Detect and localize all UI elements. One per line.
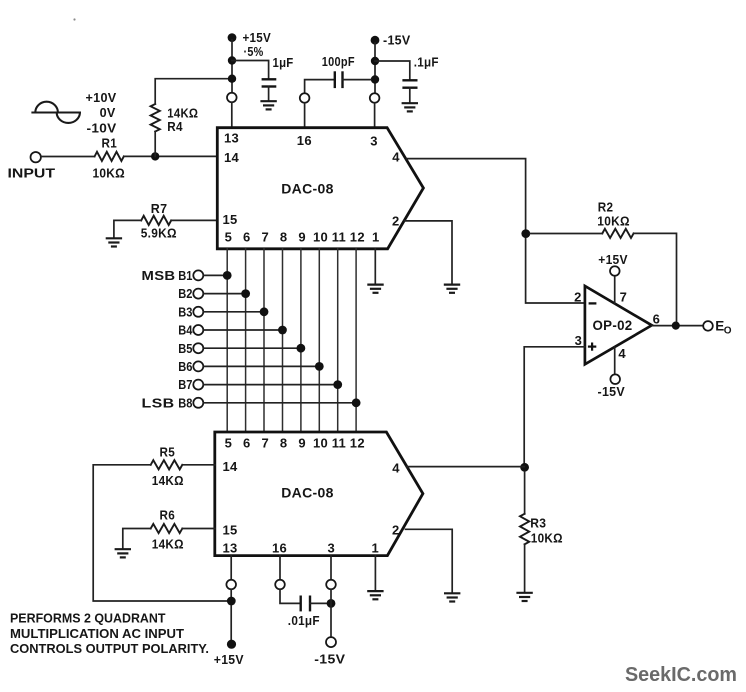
svg-text:10: 10: [313, 230, 328, 245]
wire: [203, 365, 319, 367]
wire bus pin 9: [300, 249, 302, 432]
wire: [406, 529, 453, 593]
svg-text:2: 2: [392, 213, 400, 228]
wire: [330, 589, 332, 637]
svg-text:14: 14: [223, 459, 239, 474]
terminal U3 pin16 bottom: [275, 580, 285, 590]
wire: [343, 79, 372, 81]
svg-text:B5: B5: [178, 341, 192, 356]
svg-text:R3: R3: [530, 516, 546, 531]
wire: [114, 220, 141, 238]
ground: [115, 549, 131, 557]
svg-text:LSB: LSB: [142, 395, 175, 410]
wire: [409, 88, 411, 103]
svg-text:1μF: 1μF: [273, 55, 294, 70]
junction B2 to pin 6: [241, 289, 250, 298]
ground: [444, 285, 460, 293]
junction: [228, 75, 236, 83]
wire bus pin 12: [355, 249, 357, 432]
svg-text:4: 4: [618, 346, 626, 361]
junction: [371, 57, 379, 65]
wire: [304, 103, 306, 128]
svg-text:R6: R6: [160, 508, 176, 523]
svg-text:4: 4: [392, 461, 400, 476]
wire: [203, 384, 337, 386]
junction: [371, 75, 379, 83]
svg-text:6: 6: [243, 435, 251, 450]
svg-text:13: 13: [223, 540, 238, 555]
op-amp U2 OP-02 body: [585, 286, 652, 364]
svg-text:MSB: MSB: [142, 268, 176, 283]
wire: [634, 233, 677, 325]
wire: [375, 61, 410, 79]
U2 inverting - sign: [589, 302, 597, 304]
wire bus pin 7: [263, 249, 265, 432]
terminal B1: [178, 268, 203, 283]
svg-text:O: O: [724, 325, 732, 336]
svg-text:R4: R4: [167, 119, 183, 134]
capacitor C2 100pF: [322, 54, 355, 88]
junction output node: [672, 322, 680, 330]
svg-text:5: 5: [225, 230, 233, 245]
svg-text:8: 8: [280, 435, 288, 450]
svg-text:.01μF: .01μF: [288, 613, 320, 628]
terminal B8: [178, 395, 203, 410]
svg-text:11: 11: [332, 230, 346, 245]
terminal U1 pin13 top: [227, 93, 237, 103]
svg-text:16: 16: [272, 540, 287, 555]
wire: [155, 79, 227, 104]
wire: [230, 556, 232, 580]
svg-text:R2: R2: [598, 199, 614, 214]
svg-text:.1μF: .1μF: [414, 55, 439, 70]
svg-text:B6: B6: [178, 359, 192, 374]
terminal U3 pin3 bottom: [326, 580, 336, 590]
DAC U1 DAC-08 body: [217, 128, 423, 249]
svg-text:7: 7: [620, 289, 628, 304]
svg-text:7: 7: [261, 230, 269, 245]
svg-text:8: 8: [280, 230, 288, 245]
svg-text:B7: B7: [178, 377, 192, 392]
ground: [444, 593, 460, 601]
svg-text:B3: B3: [178, 304, 192, 319]
svg-text:15: 15: [223, 212, 238, 227]
svg-text:10KΩ: 10KΩ: [531, 531, 563, 546]
svg-text:12: 12: [350, 230, 365, 245]
terminal B7: [178, 377, 203, 392]
terminal B5: [178, 341, 203, 356]
wire: [374, 103, 376, 128]
resistor R6 14K: [151, 508, 184, 552]
wire: [203, 274, 227, 276]
wire: [203, 293, 245, 295]
svg-text:3: 3: [575, 333, 583, 348]
wire: [374, 43, 376, 93]
wire: [374, 249, 376, 285]
terminal U1 pin16 top: [300, 93, 310, 103]
wire bus pin 10: [318, 249, 320, 432]
terminal U1 pin3 top: [370, 93, 380, 103]
terminal B2: [178, 286, 203, 301]
svg-text:5.9KΩ: 5.9KΩ: [141, 226, 177, 241]
svg-text:10: 10: [313, 435, 328, 450]
wire: [280, 589, 300, 603]
power +15V terminal: [228, 33, 237, 42]
wire: [203, 329, 282, 331]
svg-text:1: 1: [372, 540, 380, 555]
capacitor C1 1uF: [262, 55, 294, 86]
junction B5 to pin 9: [296, 344, 305, 353]
wire: [124, 155, 218, 157]
svg-text:10KΩ: 10KΩ: [93, 165, 126, 180]
svg-text:+15V: +15V: [214, 652, 244, 667]
svg-text:-10V: -10V: [87, 120, 117, 135]
wire: [407, 159, 585, 303]
svg-text:1: 1: [372, 230, 380, 245]
wire: [232, 61, 269, 79]
junction B3 to pin 7: [260, 307, 269, 316]
terminal B3: [178, 304, 203, 319]
svg-text:0V: 0V: [100, 105, 116, 120]
wire: [230, 589, 232, 641]
wire: [407, 466, 525, 468]
svg-text:2: 2: [392, 522, 400, 537]
svg-text:OP-02: OP-02: [593, 318, 633, 333]
resistor R3 10K: [520, 514, 563, 546]
svg-text:5: 5: [225, 435, 233, 450]
svg-text:-15V: -15V: [383, 33, 411, 48]
svg-text:100pF: 100pF: [322, 54, 355, 69]
scan speck: [73, 18, 75, 20]
svg-text:13: 13: [224, 131, 239, 146]
resistor R7 5.9K: [141, 201, 177, 240]
svg-text:9: 9: [298, 435, 306, 450]
svg-text:14: 14: [224, 150, 240, 165]
svg-text:DAC-08: DAC-08: [281, 486, 334, 501]
svg-text:·5%: ·5%: [244, 44, 264, 59]
wire: [231, 40, 233, 93]
svg-text:11: 11: [332, 435, 346, 450]
svg-text:14KΩ: 14KΩ: [152, 473, 184, 488]
wire: [374, 556, 376, 591]
svg-text:B2: B2: [178, 286, 192, 301]
terminal U2 +15V: [610, 266, 620, 276]
svg-text:15: 15: [223, 522, 238, 537]
svg-text:B8: B8: [178, 395, 192, 410]
terminal B6: [178, 359, 203, 374]
wire: [182, 528, 215, 530]
wire: [524, 544, 526, 592]
wire bus pin 11: [337, 249, 339, 432]
wire bus pin 8: [282, 249, 284, 432]
svg-text:16: 16: [297, 133, 312, 148]
wire: [203, 311, 264, 313]
wire bus pin 6: [245, 249, 247, 432]
wire: [524, 347, 585, 468]
wire: [123, 529, 151, 550]
junction pin3/.01uF node: [327, 599, 336, 608]
wire: [41, 156, 95, 158]
svg-text:6: 6: [653, 312, 661, 327]
wire: [614, 276, 616, 304]
terminal B4: [178, 323, 203, 338]
wire: [530, 233, 602, 235]
svg-text:6: 6: [243, 230, 251, 245]
resistor R2 10K: [597, 199, 633, 238]
capacitor C3 .1uF: [402, 55, 438, 88]
wire feedback loop: [93, 465, 227, 601]
svg-text:4: 4: [392, 150, 400, 165]
junction B6 to pin 10: [315, 362, 324, 371]
junction B4 to pin 8: [278, 326, 287, 335]
svg-text:2: 2: [574, 289, 582, 304]
svg-text:-15V: -15V: [314, 652, 345, 667]
svg-text:3: 3: [370, 133, 378, 148]
terminal Eo output: [703, 321, 713, 331]
svg-text:+10V: +10V: [86, 90, 117, 105]
svg-text:CONTROLS OUTPUT POLARITY.: CONTROLS OUTPUT POLARITY.: [10, 641, 209, 656]
wire: [231, 102, 233, 127]
junction R3 top node: [520, 463, 529, 472]
label Eo: [715, 318, 732, 336]
junction B1 to pin 5: [223, 271, 232, 280]
wire: [310, 602, 331, 604]
wire: [203, 402, 356, 404]
power -15V terminal: [371, 36, 380, 45]
svg-text:+15V: +15V: [598, 252, 628, 267]
svg-text:INPUT: INPUT: [8, 165, 56, 180]
junction B7 to pin 11: [333, 380, 342, 389]
ground: [260, 101, 276, 109]
resistor R5 14K: [151, 444, 184, 488]
resistor R4 14K: [151, 104, 199, 134]
svg-text:14KΩ: 14KΩ: [152, 536, 184, 551]
wire bus pin 5: [226, 249, 228, 432]
junction B8 to pin 12: [352, 398, 361, 407]
svg-text:-15V: -15V: [598, 384, 626, 399]
svg-text:9: 9: [298, 230, 306, 245]
svg-text:R1: R1: [102, 136, 118, 151]
node A junction R1/R4/pin14: [151, 152, 159, 160]
svg-text:B4: B4: [178, 323, 193, 338]
wire: [305, 80, 335, 94]
wire: [203, 347, 301, 349]
ground: [402, 103, 418, 111]
terminal U3 pin13 bottom: [226, 580, 236, 590]
terminal INPUT: [31, 152, 41, 162]
svg-text:DAC-08: DAC-08: [281, 181, 334, 196]
power +15V terminal bottom: [227, 640, 236, 649]
wire: [614, 347, 616, 374]
ground: [516, 593, 532, 601]
svg-text:12: 12: [350, 435, 365, 450]
svg-text:10KΩ: 10KΩ: [597, 214, 630, 229]
svg-text:B1: B1: [178, 268, 192, 283]
ground: [367, 591, 383, 599]
svg-text:R7: R7: [151, 201, 168, 216]
wire: [405, 221, 452, 285]
wire: [182, 464, 215, 466]
wire: [652, 325, 704, 327]
wire: [268, 87, 270, 102]
wire: [171, 219, 217, 221]
svg-text:R5: R5: [160, 444, 176, 459]
svg-text:7: 7: [261, 435, 269, 450]
junction feedback/pin13 node: [227, 597, 236, 606]
terminal -15V bottom: [326, 637, 336, 647]
junction R2 left node: [521, 229, 530, 238]
wire: [524, 472, 526, 514]
U2 non-inverting + sign: [588, 343, 596, 351]
DAC U3 DAC-08 body: [215, 432, 423, 556]
wire: [330, 556, 332, 580]
svg-text:MULTIPLICATION AC INPUT: MULTIPLICATION AC INPUT: [10, 626, 184, 641]
svg-text:3: 3: [328, 540, 336, 555]
terminal U2 -15V: [610, 374, 620, 384]
resistor R1 10K: [93, 136, 126, 181]
svg-text:PERFORMS 2 QUADRANT: PERFORMS 2 QUADRANT: [10, 610, 166, 625]
wire: [154, 132, 156, 157]
ground: [367, 285, 383, 293]
svg-text:SeekIC.com: SeekIC.com: [625, 664, 737, 686]
capacitor C4 .01uF: [288, 596, 320, 628]
input AC source waveform symbol: [31, 102, 81, 123]
ground: [106, 238, 122, 246]
wire: [279, 556, 281, 580]
junction: [228, 56, 236, 64]
